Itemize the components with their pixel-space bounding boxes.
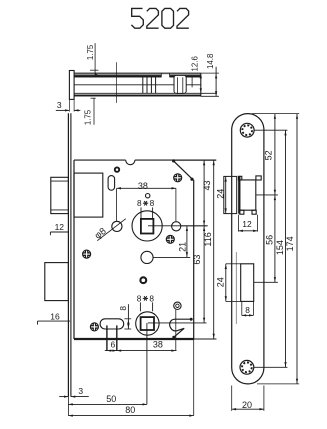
svg-text:21: 21 (177, 242, 187, 252)
case right edge (193, 180, 195, 339)
leader mid hole (153, 256, 190, 258)
diagonal leader d8 (97, 219, 126, 241)
fold line deadbolt cutout (235, 252, 237, 324)
extension line right of case top (201, 72, 219, 74)
latch cutout top (239, 179, 256, 181)
title 5202 (131, 8, 188, 28)
svg-text:1.75: 1.75 (83, 109, 92, 125)
cylinder boss box (top view) (174, 75, 186, 93)
latch cutout bottom (239, 209, 256, 211)
dim line 3 bottom right (71, 396, 89, 398)
follower circle (132, 211, 162, 241)
svg-text:8: 8 (137, 198, 142, 208)
bottom follower circle (136, 312, 159, 335)
leader deadbolt cutout center (254, 281, 278, 283)
leader 1.75 top (95, 74, 101, 77)
deadbolt cutout (241, 264, 254, 302)
ext 8 left (241, 301, 243, 315)
svg-text:20: 20 (242, 400, 252, 410)
step line (160, 73, 162, 77)
screw post bottom-left (90, 323, 98, 331)
inner vertical (191, 75, 193, 87)
inner top line (74, 74, 201, 76)
dim line 20 (232, 408, 264, 410)
svg-text:8: 8 (118, 306, 128, 311)
dim line 12 cutout (239, 230, 258, 232)
slot leg left (106, 325, 108, 350)
node hook bottom (172, 336, 175, 339)
hole d8 (112, 221, 122, 231)
dim line 154 (285, 130, 287, 367)
dim line 43-63 (203, 160, 205, 323)
ext 20 right (263, 386, 265, 411)
latch body inside case (74, 173, 103, 217)
dim line 3 top right (74, 109, 80, 111)
faceplate right edge (front view) (70, 113, 72, 396)
cylinder hole mid (141, 251, 153, 263)
extension 38 left (116, 188, 118, 221)
dim line 80 (68, 415, 193, 417)
svg-text:50: 50 (106, 394, 116, 404)
hook lever bottom-right (170, 319, 192, 337)
bottom square 8x8 (141, 317, 154, 330)
dim tick 1.75 bottom (91, 97, 96, 99)
latch dust box (224, 176, 237, 213)
svg-text:24: 24 (215, 189, 225, 199)
tick 8*8 left (140, 207, 142, 219)
extension plate bottom (257, 383, 299, 385)
extension line 1.75 top (94, 43, 96, 77)
ext 24 deadbolt bottom (226, 300, 241, 302)
case right edge (top view) (200, 73, 202, 96)
node chamfer start (172, 159, 175, 162)
horizontal slot bottom (100, 319, 124, 329)
underline 12 (50, 231, 68, 233)
small hole above follower (146, 194, 150, 198)
inner bottom line (74, 92, 201, 94)
ext 12 left (238, 215, 240, 232)
tick 8*8 bottom right (152, 302, 154, 311)
centerline through top view (116, 62, 118, 103)
leader follower center to dims (148, 225, 208, 227)
svg-text:63: 63 (192, 255, 202, 265)
svg-text:1.75: 1.75 (86, 44, 95, 60)
dim line 38 top (117, 187, 176, 189)
ext 20 left (231, 386, 233, 411)
svg-text:24: 24 (216, 277, 226, 287)
clip top-right (256, 176, 261, 180)
dim line 8 cutout (242, 314, 254, 316)
svg-text:56: 56 (264, 235, 274, 245)
extension line right of case bottom (201, 95, 219, 97)
latch bevel line bottom (51, 209, 69, 211)
latch bevel line top (51, 180, 69, 182)
svg-text:12: 12 (242, 219, 252, 229)
svg-text:3: 3 (57, 100, 62, 110)
svg-text:8: 8 (245, 305, 250, 315)
tick 12 (49, 232, 51, 235)
dim line 24 latch (225, 176, 227, 213)
tick 8*8 bottom left (139, 302, 141, 311)
top edge extension to dims (173, 159, 216, 161)
svg-text:38: 38 (138, 181, 148, 191)
leader screw top (254, 129, 287, 131)
screw post mid-right (166, 235, 174, 243)
mid line (74, 84, 201, 86)
svg-text:80: 80 (125, 405, 135, 415)
case bottom edge (thick) (74, 338, 194, 340)
svg-text:8: 8 (137, 293, 142, 303)
slot leg right (116, 325, 118, 350)
ext 24 deadbolt top (226, 263, 241, 265)
screw post top-right (174, 174, 182, 182)
dim line 8 slot (127, 304, 129, 329)
ext tick slot top (124, 318, 131, 320)
leader screw bottom (254, 366, 288, 368)
svg-text:43: 43 (202, 180, 212, 190)
dim line 1.75 top (90, 69, 98, 71)
bottom edge extension to dims (194, 338, 217, 340)
centerline bottom square down (146, 323, 148, 404)
extension plate top (252, 113, 299, 115)
dim line 52-56 (274, 114, 276, 283)
leader through right hole (181, 225, 208, 227)
svg-text:8: 8 (149, 293, 154, 303)
svg-text:6: 6 (111, 340, 116, 350)
leader bottom square to dims (148, 322, 207, 324)
dim line 116 (213, 160, 215, 339)
ext 12 right (257, 215, 259, 232)
dim line 14.8 (215, 67, 217, 97)
underline 16 (38, 320, 71, 322)
svg-text:174: 174 (285, 236, 295, 251)
svg-text:3: 3 (78, 386, 83, 396)
dim line 24 deadbolt (225, 264, 227, 302)
ext tick slot bottom (124, 328, 131, 330)
follower hub section box (142, 77, 144, 93)
double ring bottom-right (174, 302, 181, 309)
extension 38 right (175, 188, 177, 221)
dim line 50 (68, 403, 146, 405)
node hook right (190, 318, 193, 321)
svg-text:8: 8 (150, 198, 155, 208)
faceplate left edge (front view) (67, 113, 69, 396)
svg-text:154: 154 (275, 240, 285, 255)
latch bolt protrusion (51, 177, 69, 213)
case top edge with notch (74, 159, 126, 161)
dim line 174 (296, 114, 298, 384)
hole right of follower (172, 222, 181, 231)
small bold ring (140, 277, 146, 283)
svg-text:12.6: 12.6 (191, 56, 200, 72)
extension faceplate down (67, 397, 69, 416)
faceplate strip (top view) (69, 71, 74, 100)
leader latch cutout center (256, 194, 278, 196)
chamfer diagonal top-right (173, 161, 193, 180)
clip bottom-right (252, 210, 256, 214)
case left edge (73, 160, 75, 339)
dim line 3 bottom left (59, 396, 68, 398)
strike plate outline (232, 114, 264, 384)
top plate section band (74, 75, 201, 77)
tick 8*8 right (152, 207, 154, 219)
latch cutout right (255, 180, 257, 210)
step line (169, 73, 171, 77)
screw bottom (240, 360, 254, 374)
dim line 6-38 bottom (105, 350, 177, 352)
small rivet top-left (115, 167, 119, 171)
bottom plate section band (74, 95, 201, 97)
extension strip right (73, 99, 75, 111)
clip bottom-left (240, 210, 244, 214)
svg-text:38: 38 (153, 340, 163, 350)
svg-text:12: 12 (55, 222, 65, 232)
extension ring down (175, 310, 177, 351)
square spindle hole 8x8 (141, 219, 154, 234)
extension line 12.6 bottom (201, 92, 217, 94)
vertical slot top-left (108, 176, 115, 191)
extension case right down (193, 339, 195, 416)
node chamfer end (190, 178, 193, 181)
latch cutout thick edge (238, 176, 240, 213)
svg-text:116: 116 (203, 232, 213, 246)
svg-text:14.8: 14.8 (206, 53, 215, 69)
screw post mid-left (83, 250, 91, 258)
clip top-left (238, 176, 241, 180)
screw top (240, 123, 254, 137)
dim line 21 (186, 226, 188, 258)
svg-text:52: 52 (263, 150, 273, 160)
extension line 1.75 bottom (93, 99, 95, 125)
dim line 3 top left (56, 109, 70, 111)
extension strip left (68, 99, 70, 111)
deadbolt protrusion (45, 263, 69, 301)
svg-text:16: 16 (50, 312, 60, 322)
case top line (top view) (74, 72, 201, 74)
semicircular notch in top edge (126, 160, 135, 165)
ext 8 right (252, 301, 254, 315)
tick 16 (37, 321, 39, 325)
